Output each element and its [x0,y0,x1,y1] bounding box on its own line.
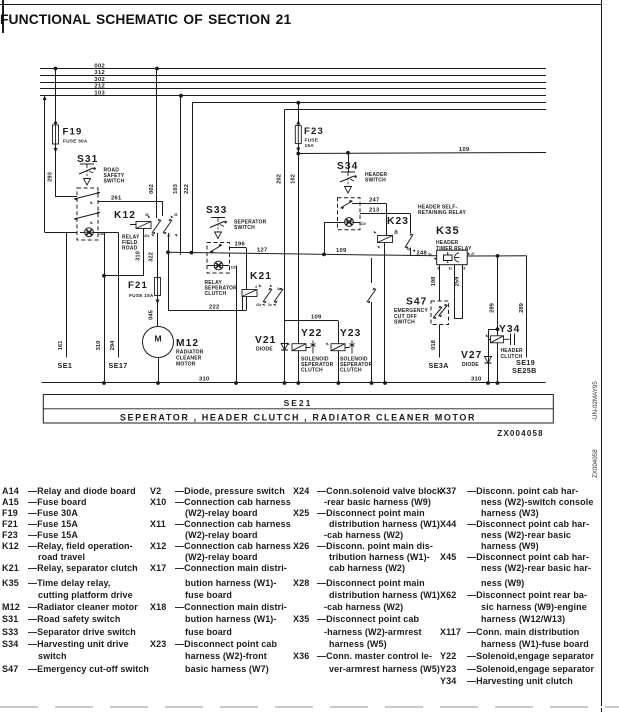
svg-text:V27: V27 [461,350,482,361]
svg-text:2o: 2o [268,303,272,307]
svg-text:SE17: SE17 [109,361,128,370]
svg-text:FUSE: FUSE [305,138,319,144]
fuse F21 [155,278,161,296]
legend column 4 [440,486,600,574]
wire K21 contact to ground [371,258,373,283]
svg-text:MOTOR: MOTOR [176,362,196,368]
svg-text:F19: F19 [63,127,83,138]
svg-text:SE3A: SE3A [429,361,449,370]
svg-text:202: 202 [277,174,283,184]
svg-text:CLUTCH: CLUTCH [340,368,362,374]
wire 127-109-248 rail [168,252,437,256]
wire 196 [230,247,247,249]
relay K23 contact [405,235,413,248]
wire 103 dropper [180,96,182,255]
svg-text:-UN-02MAY95: -UN-02MAY95 [592,381,599,421]
svg-text:018: 018 [431,339,437,349]
wire 045 F21 to M12 [157,296,159,328]
svg-text:CLUTCH: CLUTCH [205,291,227,297]
wire 289 to Y34 [497,256,499,383]
bus wire 302 [40,82,546,84]
svg-text:110: 110 [99,232,104,236]
wire 261 [98,201,163,203]
svg-text:045: 045 [149,309,155,319]
wire Y34 to diode V27 [488,339,491,341]
svg-text:222: 222 [209,305,220,311]
svg-text:289: 289 [490,302,496,312]
svg-text:DIODE: DIODE [256,347,273,353]
svg-text:SWITCH: SWITCH [104,179,125,185]
svg-text:Y34: Y34 [499,324,520,335]
page left edge mark [2,0,4,33]
svg-text:SE1: SE1 [58,361,73,370]
svg-text:310: 310 [136,251,142,261]
relay K12 coil [136,222,151,229]
svg-text:FUSE 30A: FUSE 30A [63,139,88,145]
svg-text:RETAINING RELAY: RETAINING RELAY [418,210,466,216]
wire S34 to rail [324,222,338,224]
svg-text:289: 289 [519,302,525,312]
svg-text:302: 302 [94,77,105,83]
svg-text:SE25B: SE25B [512,366,537,375]
wire K23 coil to ground [384,243,386,384]
svg-text:312: 312 [94,70,105,76]
svg-text:109: 109 [311,315,322,321]
switch S33 manual actuator [211,217,225,219]
svg-text:K12: K12 [114,210,136,221]
wire left rail 103 [44,99,46,232]
svg-text:K23: K23 [387,216,409,227]
wire 213 [360,213,410,215]
relay K21 contacts [263,289,272,302]
wire rail y110 [285,109,547,111]
svg-text:SWITCH: SWITCH [234,225,255,231]
wire 222 dropper [192,103,194,253]
svg-text:3o: 3o [428,253,432,257]
pin marks Y22 Y23 Y34 [287,342,291,345]
svg-text:4: 4 [255,285,257,289]
wire 310 left [104,232,106,383]
svg-text:S34: S34 [337,161,358,172]
svg-text:261: 261 [111,196,122,202]
svg-text:DIODE: DIODE [462,362,479,368]
svg-text:K21: K21 [250,271,272,282]
pin marks K12 [147,215,151,218]
svg-text:222: 222 [184,184,190,194]
switch S31 manual actuator [80,163,94,165]
svg-text:47: 47 [471,252,475,256]
svg-text:3o: 3o [394,231,398,235]
relay K12 contacts [152,220,161,233]
svg-text:F23: F23 [304,126,324,137]
wire S31 to ground rails [98,232,118,234]
wire 109 to S34 [348,153,350,172]
relay K21 coil [242,290,257,297]
legend column 1 [2,486,150,574]
wire 294 SE17 [118,232,120,357]
page top rule [0,4,601,5]
wire K35 out right [467,255,527,257]
svg-text:S31: S31 [77,154,98,165]
fuse F23 [295,126,301,144]
svg-text:110: 110 [231,266,236,270]
wire 289 to SE19 [526,256,528,358]
diode V27 [485,357,492,364]
svg-text:30: 30 [145,213,149,217]
svg-text:198: 198 [431,276,437,286]
svg-text:Y22: Y22 [301,328,322,339]
svg-text:FUSE 15A: FUSE 15A [129,293,154,299]
svg-text:47: 47 [407,248,411,252]
switch S34 contact box [338,198,361,230]
switch S33 contact box [207,243,230,274]
pin marks K21 [258,284,262,287]
svg-text:247: 247 [369,198,380,204]
svg-text:SE21: SE21 [284,398,313,408]
bus wire 103 [40,95,546,97]
svg-text:ZX004058: ZX004058 [497,429,544,438]
relay K35 timer box [437,250,468,265]
page right border [601,0,602,712]
svg-text:47: 47 [167,234,171,238]
svg-text:Y23: Y23 [340,328,361,339]
svg-text:K35: K35 [436,225,460,237]
wire 102 lower [298,144,300,344]
SE21 harness box [43,395,553,424]
wire S33 box to ground [236,266,238,384]
pin marks K23 [373,231,377,234]
switch S31 contact box [77,188,98,240]
wire 018 SE3A [439,325,441,358]
svg-text:161: 161 [58,340,64,350]
svg-text:V21: V21 [255,335,276,346]
svg-text:127: 127 [257,248,268,254]
svg-text:47a: 47a [256,303,262,307]
title [0,12,291,27]
wire Y22 to ground [298,351,300,383]
svg-text:110: 110 [361,222,366,226]
svg-text:SEPERATOR , HEADER CLUTCH , RA: SEPERATOR , HEADER CLUTCH , RADIATOR CLE… [120,412,476,422]
svg-text:8: 8 [464,267,466,271]
svg-text:M12: M12 [176,338,199,349]
pin marks K35 [433,257,437,260]
wire 109 solenoid feed [285,320,339,322]
svg-text:103: 103 [173,183,179,193]
wire 002 dropper [156,69,158,219]
svg-text:M: M [154,334,161,344]
bus wire 002 [40,68,546,70]
wire 002 to F19 [55,69,57,126]
svg-text:109: 109 [336,248,347,254]
svg-text:SWITCH: SWITCH [394,320,415,326]
sidebar imprint [589,374,600,484]
svg-text:31: 31 [449,267,453,271]
svg-text:294: 294 [110,340,116,350]
svg-text:30: 30 [174,213,178,217]
legend column 2 [150,486,295,574]
switch S47 contact box [431,301,449,325]
svg-text:310: 310 [471,377,482,383]
svg-text:15A: 15A [305,143,315,149]
svg-text:8: 8 [438,267,440,271]
svg-text:002: 002 [94,63,105,69]
svg-text:CLUTCH: CLUTCH [501,354,523,360]
svg-text:212: 212 [94,84,105,90]
svg-text:196: 196 [235,242,246,248]
svg-text:S47: S47 [406,297,427,308]
bus wire 212 [40,88,546,90]
bus wire 312 [40,75,546,77]
K35 pin loop 259 [454,265,456,319]
motor M12 [143,327,174,358]
svg-text:293: 293 [48,171,54,181]
svg-text:ZX004058: ZX004058 [592,449,599,478]
legend column 3 [293,486,443,574]
wire 222 lower [168,233,170,311]
K35 pin wire 198 to S47 [439,265,441,301]
svg-text:310: 310 [96,341,102,351]
wire 102 F23 [298,103,300,126]
svg-text:F21: F21 [128,280,148,291]
svg-text:259: 259 [455,276,461,286]
svg-text:SWITCH: SWITCH [365,178,386,184]
svg-text:47a: 47a [144,234,150,238]
svg-text:ROAD: ROAD [122,246,138,252]
svg-text:S33: S33 [206,205,227,216]
svg-text:102: 102 [290,174,296,184]
wire 247 [352,203,386,205]
wire 322 through F21 [157,233,159,278]
relay K23 coil [378,236,393,243]
fuse F19 [53,125,59,144]
svg-text:310: 310 [199,377,210,383]
wire M12 to ground [158,358,160,384]
wire 222 top rail [192,102,546,104]
svg-text:CLUTCH: CLUTCH [301,368,323,374]
diode V21 [284,321,286,383]
svg-text:103: 103 [94,91,105,97]
svg-text:213: 213 [369,208,380,214]
bottom scan artifact [0,706,619,708]
wire F19 to S31 [55,144,57,197]
svg-text:3o: 3o [277,287,281,291]
wire 109 horizontal [298,153,546,154]
wire 310 K12 coil return [143,229,145,276]
svg-text:248: 248 [417,251,428,257]
svg-text:322: 322 [149,252,155,262]
switch S34 manual actuator [341,171,355,173]
ground rail 310 [42,382,546,384]
svg-text:002: 002 [149,184,155,194]
wire 202 [284,110,286,321]
wire 161 SE1 [66,232,68,357]
svg-text:109: 109 [459,147,470,153]
